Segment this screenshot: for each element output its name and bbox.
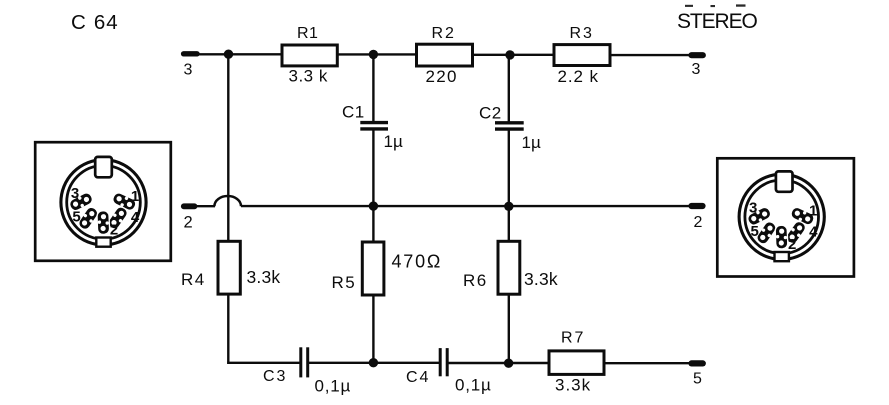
svg-text:C1: C1 (342, 103, 365, 122)
capacitor C4 (440, 348, 447, 376)
DIN socket top key notch (J1) (95, 157, 112, 177)
resistor R4 (218, 241, 240, 294)
svg-text:C2: C2 (479, 104, 502, 123)
svg-text:3.3k: 3.3k (247, 267, 281, 287)
svg-text:STEREO: STEREO (677, 10, 758, 33)
svg-text:5: 5 (693, 371, 702, 388)
svg-text:2: 2 (184, 213, 193, 231)
DIN socket inner ring (J1) (67, 166, 141, 240)
wire R6 to bottom (508, 294, 510, 364)
svg-text:3: 3 (184, 62, 193, 79)
junction node C bottom (504, 359, 513, 368)
svg-text:R1: R1 (297, 25, 318, 42)
svg-text:5: 5 (751, 223, 759, 240)
DIN pin 2 (J1) (97, 211, 110, 235)
resistor R2 (417, 44, 473, 66)
resistor R5 (362, 242, 384, 295)
svg-text:3.3 k: 3.3 k (289, 67, 328, 86)
svg-text:3: 3 (692, 61, 701, 78)
wire R4 to bottom wire (227, 294, 229, 364)
terminal 2 left (184, 203, 195, 209)
capacitor C3 (301, 347, 308, 377)
junction node B top (369, 50, 378, 59)
svg-text:3.3k: 3.3k (524, 269, 558, 289)
wire R5 to bottom (372, 295, 374, 363)
resistor R1 (282, 45, 337, 66)
svg-text:1: 1 (131, 188, 139, 205)
wire hop over branch A (214, 196, 241, 206)
svg-text:2.2 k: 2.2 k (558, 67, 599, 86)
wire bottom from R4 (227, 362, 299, 364)
svg-text:C4: C4 (406, 369, 430, 386)
junction node B bottom (369, 358, 378, 367)
DIN connector J1 (C64) body (35, 142, 171, 261)
DIN connector J2 (stereo) body (717, 158, 854, 276)
capacitor C2 (495, 123, 524, 129)
svg-text:R4: R4 (181, 270, 206, 289)
svg-text:3: 3 (749, 200, 757, 217)
svg-text:R6: R6 (463, 271, 488, 290)
resistor R6 (498, 241, 520, 294)
resistor R7 (549, 351, 604, 375)
resistor R3 (554, 45, 610, 66)
wire node C to C2 (508, 55, 510, 122)
svg-text:0,1µ: 0,1µ (315, 377, 352, 396)
svg-text:2: 2 (788, 236, 796, 253)
svg-text:R2: R2 (432, 25, 456, 42)
DIN socket outer ring (J2) (739, 174, 824, 259)
wire C1 to node B2 (372, 130, 374, 206)
DIN pin 5 (J2) (755, 220, 778, 246)
svg-text:3: 3 (71, 185, 79, 202)
svg-text:0,1µ: 0,1µ (455, 376, 492, 395)
junction node B middle (369, 201, 378, 210)
DIN socket inner ring (J2) (745, 180, 819, 254)
wire R2 to node C (473, 54, 555, 56)
DIN socket outer ring (J1) (61, 160, 146, 245)
svg-text:R5: R5 (332, 273, 357, 292)
wire node A vertical (227, 54, 229, 242)
svg-text:3.3k: 3.3k (555, 376, 591, 395)
wire C3 to node (309, 362, 439, 364)
DIN pin 5 (J1) (77, 205, 100, 231)
DIN socket bottom notch (J2) (775, 252, 789, 261)
wire C2 to node C2mid (508, 131, 510, 207)
DIN pin 1 (J1) (111, 191, 137, 212)
svg-text:1: 1 (809, 202, 817, 219)
DIN pin 4 (J2) (784, 219, 807, 245)
svg-text:C3: C3 (263, 368, 287, 385)
DIN pin 3 (J1) (68, 191, 94, 212)
junction node C top (505, 50, 514, 59)
svg-text:5: 5 (72, 209, 80, 226)
wire node C2 to R6 (508, 206, 510, 242)
DIN pin 1 (J2) (789, 206, 815, 227)
svg-text:2: 2 (694, 214, 703, 231)
wire R3 to terminal 3 right (610, 54, 690, 56)
junction node C middle (504, 202, 513, 211)
terminal 2 right (692, 203, 703, 209)
terminal 5 (692, 360, 703, 366)
wire terminal2L to hop (195, 205, 216, 207)
svg-text:R7: R7 (561, 330, 585, 347)
junction node top-left (224, 50, 233, 59)
wire terminal3L to node (197, 53, 283, 55)
svg-text:C64: C64 (71, 11, 119, 34)
terminal 3 left (184, 51, 197, 56)
svg-text:4: 4 (809, 223, 818, 240)
wire node B2 to R5 (372, 206, 374, 242)
svg-text:470Ω: 470Ω (392, 252, 443, 272)
terminal 3 right (692, 52, 703, 58)
wire R7 to terminal 5 (604, 362, 690, 364)
svg-text:1µ: 1µ (522, 133, 541, 152)
svg-text:4: 4 (131, 209, 140, 226)
svg-text:1µ: 1µ (384, 132, 403, 151)
DIN socket bottom notch (J1) (96, 238, 110, 247)
DIN pin 4 (J1) (106, 205, 129, 231)
DIN socket top key notch (J2) (776, 171, 793, 191)
capacitor C1 (360, 123, 388, 129)
DIN pin 2 (J2) (775, 225, 788, 249)
wire net2 across (241, 205, 690, 207)
scan marks above STEREO (685, 4, 746, 7)
svg-text:R3: R3 (570, 25, 594, 42)
wire C4 to R7 (449, 362, 550, 364)
wire R1 to node B (337, 53, 417, 55)
DIN pin 3 (J2) (746, 206, 772, 227)
svg-text:220: 220 (426, 67, 458, 86)
wire node B to C1 (372, 54, 374, 121)
svg-text:2: 2 (110, 222, 118, 239)
